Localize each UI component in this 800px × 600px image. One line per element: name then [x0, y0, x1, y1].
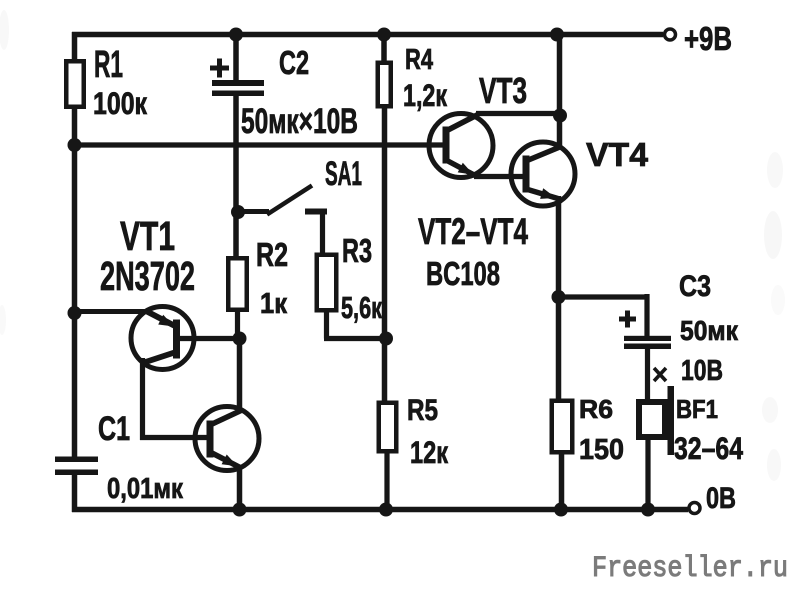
svg-text:Freeseller.ru: Freeseller.ru [592, 551, 788, 585]
svg-text:5,6к: 5,6к [341, 290, 382, 325]
svg-text:32–64: 32–64 [674, 430, 743, 466]
svg-text:10В: 10В [681, 355, 723, 387]
svg-text:2N3702: 2N3702 [100, 253, 195, 299]
svg-text:R4: R4 [405, 44, 433, 76]
svg-text:100к: 100к [93, 85, 147, 121]
svg-text:C1: C1 [98, 410, 130, 448]
svg-text:150: 150 [579, 434, 624, 466]
svg-text:BF1: BF1 [676, 394, 718, 424]
svg-text:VT3: VT3 [479, 70, 527, 111]
svg-text:1,2к: 1,2к [403, 77, 447, 113]
svg-text:C3: C3 [679, 270, 711, 303]
svg-text:12к: 12к [410, 434, 448, 470]
svg-text:R2: R2 [256, 236, 288, 273]
svg-text:VT4: VT4 [586, 136, 649, 173]
svg-text:R5: R5 [407, 394, 438, 427]
svg-text:R3: R3 [342, 232, 372, 269]
svg-text:50мк: 50мк [680, 315, 738, 346]
svg-text:R6: R6 [579, 394, 613, 424]
svg-text:1к: 1к [260, 288, 287, 320]
svg-text:+9В: +9В [684, 20, 732, 57]
svg-text:0В: 0В [706, 482, 736, 515]
svg-text:SA1: SA1 [325, 155, 362, 193]
svg-text:VT2–VT4: VT2–VT4 [418, 211, 528, 252]
svg-text:50мк×10В: 50мк×10В [241, 102, 358, 141]
svg-text:0,01мк: 0,01мк [107, 473, 183, 505]
svg-text:BC108: BC108 [426, 255, 500, 292]
svg-text:R1: R1 [94, 44, 123, 86]
svg-text:C2: C2 [279, 44, 309, 81]
